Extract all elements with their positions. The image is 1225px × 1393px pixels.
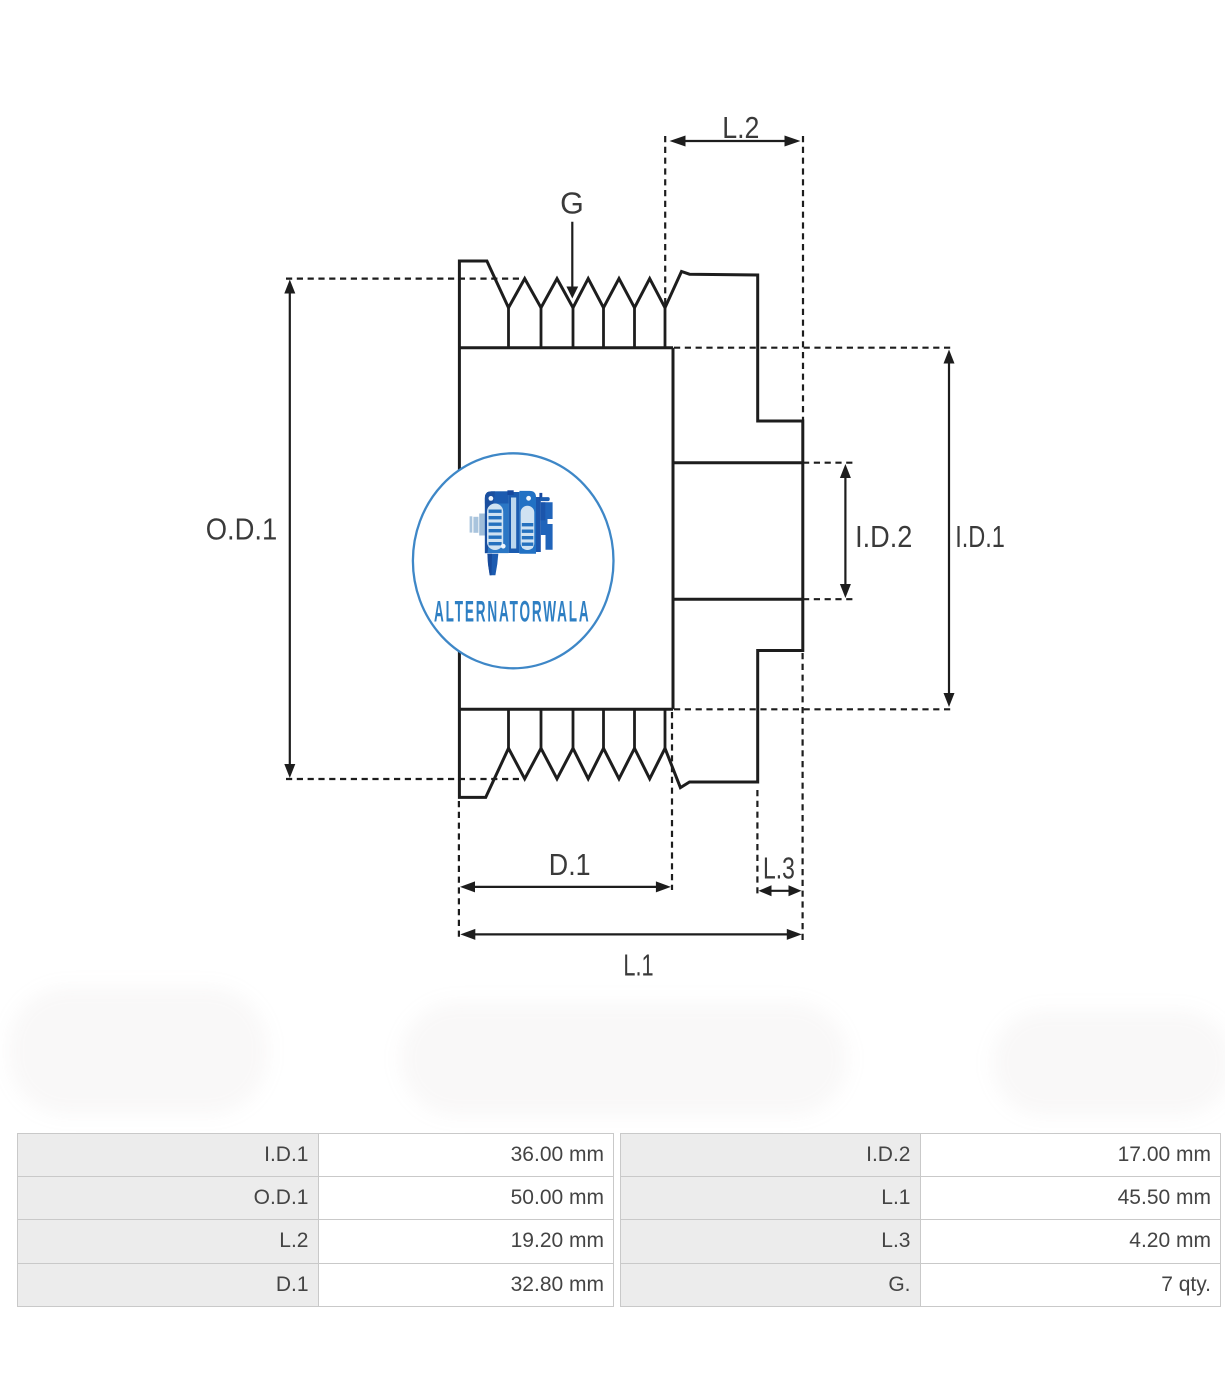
bottom terminal xyxy=(487,554,498,576)
I.D.1 dimension arrow line xyxy=(948,360,950,695)
I.D.2 extension line top (dashed) xyxy=(803,462,853,464)
O.D.1 extension line bottom (dashed) xyxy=(286,778,524,780)
L.3 dimension arrow line xyxy=(768,890,792,892)
bore wall lower line xyxy=(673,598,803,601)
L.2 extension line left (dashed) xyxy=(664,136,666,306)
rim top surface line xyxy=(459,346,673,349)
watermark logo circle xyxy=(413,453,614,668)
L.2 extension line right (dashed) xyxy=(802,136,804,420)
right housing xyxy=(519,491,536,554)
I.D.1 extension line bottom (dashed) xyxy=(674,708,953,710)
L.3 extension line left (dashed) xyxy=(756,790,758,895)
L.3 / L.1 extension line right (dashed) xyxy=(801,653,803,940)
D.1 dimension arrow line xyxy=(471,886,659,888)
I.D.2 extension line bottom (dashed) xyxy=(803,598,853,600)
central bar xyxy=(509,492,520,553)
O.D.1 dimension arrow line xyxy=(289,291,291,766)
L.1 dimension arrow line xyxy=(471,933,791,935)
faint shadow blob middle xyxy=(400,1002,848,1116)
left housing xyxy=(485,491,509,553)
groove depth lines bottom xyxy=(509,709,666,748)
groove depth lines top xyxy=(509,308,666,348)
D.1 extension line right (dashed) xyxy=(671,712,673,890)
svg-text:O.D.1: O.D.1 xyxy=(206,512,278,547)
dimensions table right xyxy=(620,1133,1222,1307)
D.1 extension line left (dashed) xyxy=(458,801,460,939)
logo alternator icon xyxy=(470,490,553,575)
svg-text:L.3: L.3 xyxy=(763,851,795,886)
I.D.1 extension line top (dashed) xyxy=(674,347,953,349)
O.D.1 extension line top (dashed) xyxy=(286,278,525,280)
svg-text:L.2: L.2 xyxy=(722,110,759,145)
dimensions table left xyxy=(17,1133,614,1307)
G leader arrow xyxy=(571,222,573,288)
shaft plates xyxy=(470,516,473,532)
svg-text:G: G xyxy=(560,186,584,221)
faint shadow blob right xyxy=(992,1010,1225,1116)
body right edge line xyxy=(672,348,675,710)
svg-text:I.D.2: I.D.2 xyxy=(855,519,912,554)
svg-text:ALTERNATORWALA: ALTERNATORWALA xyxy=(434,595,591,628)
svg-text:I.D.1: I.D.1 xyxy=(955,519,1005,554)
faint shadow blob left xyxy=(8,987,268,1115)
pulley profile outline xyxy=(459,261,802,797)
rear bracket xyxy=(536,497,541,552)
svg-text:L.1: L.1 xyxy=(623,948,653,983)
rim bottom surface line xyxy=(459,708,673,711)
bore wall upper line xyxy=(673,461,803,464)
L.2 dimension arrow line xyxy=(682,140,787,142)
I.D.2 dimension arrow line xyxy=(844,475,846,587)
svg-text:D.1: D.1 xyxy=(549,847,591,882)
